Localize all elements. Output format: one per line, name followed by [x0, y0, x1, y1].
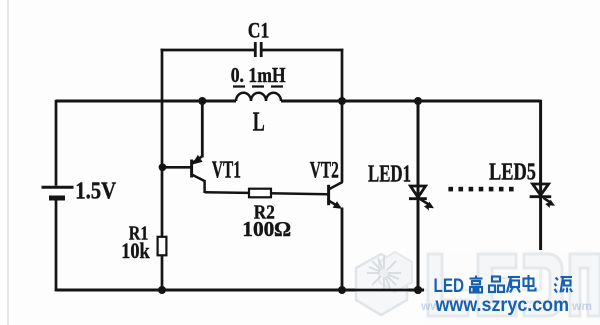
transistor VT2 collector diagonal [329, 182, 342, 189]
transistor VT1 emitter diagonal with PNP arrow [193, 156, 203, 163]
transistor VT1 collector path [192, 175, 204, 193]
wire: VT1 collector to VT2 base [205, 192, 328, 194]
wire: feedback loop right vertical / VT2 collector riser [341, 49, 344, 183]
wire: top feedback loop horizontal (right of C1) [263, 49, 344, 52]
wire: R1 bottom to ground rail [161, 255, 164, 291]
underline of 0.1mH [233, 85, 285, 87]
char zhi [507, 277, 520, 293]
wire: bottom ground rail [55, 289, 541, 292]
wire: main top rail right of inductor [281, 100, 541, 103]
transistor VT2 base bar [327, 185, 330, 205]
svg-text:VT1: VT1 [212, 158, 241, 184]
svg-text:1.5V: 1.5V [75, 178, 117, 204]
node: junction C1/VT2 collector on rail [338, 97, 346, 105]
node: junction LED1 on ground rail [414, 286, 422, 294]
wire: left rail top (rail corner down to battery +) [55, 100, 58, 186]
LED1 emission arrow [421, 199, 435, 210]
svg-text:www.szryc.com: www.szryc.com [435, 294, 569, 316]
scan edge artifact [7, 0, 9, 325]
watermark: snowflake badge [356, 252, 412, 315]
svg-text:0. 1mH: 0. 1mH [231, 63, 286, 87]
wire: VT1 emitter vertical to rail [201, 100, 204, 158]
watermark: white cover panel bottom-right [424, 250, 600, 325]
wire: main top rail with inductor [56, 100, 236, 103]
char gao [470, 276, 483, 293]
battery 1.5V positive plate [42, 186, 74, 189]
battery 1.5V negative plate [49, 196, 65, 201]
wire: battery - to ground rail [55, 201, 58, 292]
capacitor C1 [255, 42, 261, 57]
resistor R2 [249, 189, 271, 198]
svg-text:100Ω: 100Ω [242, 217, 291, 241]
node: junction LED1 branch on rail [414, 97, 422, 105]
node: junction VT1 emitter branch on rail [198, 97, 206, 105]
dotted continuation between LED1 and LED5 [448, 187, 513, 192]
char pin [489, 277, 504, 293]
wire: base line vertical (C1 left to R1 top, crosses main rail without junction) [161, 49, 164, 237]
wire: VT1 base wire [162, 166, 191, 169]
watermark: redraw ground rail over badge [350, 289, 426, 292]
svg-text:L: L [253, 107, 265, 137]
svg-text:LED5: LED5 [489, 160, 536, 186]
node: VT1 base junction dot [159, 163, 167, 171]
svg-text:10k: 10k [121, 238, 150, 263]
svg-text:ww: ww [420, 299, 440, 313]
char dian [524, 275, 536, 291]
transistor VT2 emitter diagonal with NPN arrow [329, 201, 340, 208]
LED5 diode triangle [533, 184, 549, 195]
svg-text:LED1: LED1 [368, 162, 411, 188]
resistor R1 [158, 237, 167, 256]
transistor VT1 base bar [190, 160, 193, 178]
watermark: pale grey big letters [428, 254, 600, 316]
LED5 emission arrow [543, 198, 555, 208]
svg-text:VT2: VT2 [310, 157, 339, 183]
LED1 cathode bar [409, 197, 427, 200]
wire: LED5 branch vertical [539, 100, 542, 290]
LED5 cathode bar [530, 195, 552, 198]
node: junction VT2 emitter on ground rail [338, 286, 346, 294]
wire: VT2 emitter vertical to ground rail [341, 208, 344, 291]
inductor L coil [236, 93, 281, 101]
char yuan [555, 277, 573, 293]
node: junction R1 on ground rail [158, 286, 166, 294]
wire: LED1 branch vertical [417, 100, 420, 290]
svg-text:wm: wm [571, 299, 592, 313]
LED1 diode triangle [410, 186, 425, 197]
wire: top feedback loop horizontal (left of C1) [161, 49, 255, 52]
svg-text:C1: C1 [248, 17, 269, 42]
